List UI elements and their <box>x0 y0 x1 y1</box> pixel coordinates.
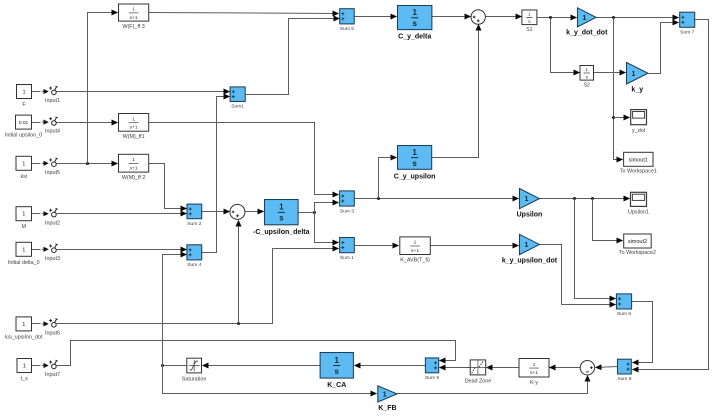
svg-text:1: 1 <box>383 392 387 399</box>
wire circle A to S1 <box>486 16 522 18</box>
svg-text:Sum 8: Sum 8 <box>617 376 631 382</box>
junction Upsilon tap 2 <box>591 197 594 200</box>
svg-text:M: M <box>22 224 27 230</box>
svg-text:1: 1 <box>412 8 417 17</box>
svg-text:ksi_upsilon_dot: ksi_upsilon_dot <box>5 334 43 340</box>
svg-text:simout2: simout2 <box>628 239 647 245</box>
svg-text:1: 1 <box>22 212 25 218</box>
transfer function W(M)_ff1 <box>119 114 149 141</box>
integrator C_y_upsilon <box>394 146 436 181</box>
svg-text:1: 1 <box>528 12 531 17</box>
wire circle C to K-y <box>550 367 581 369</box>
svg-text:s: s <box>279 214 284 223</box>
svg-text:W(M)_ff 2: W(M)_ff 2 <box>122 175 146 181</box>
constant F <box>17 85 32 109</box>
wire Sum 8 to circle C <box>596 367 618 368</box>
wire W(F)_ff 3 to Sum 5 <box>149 13 339 14</box>
junction k_y_dot_dot output <box>612 16 615 19</box>
svg-text:C_y_delta: C_y_delta <box>398 34 431 41</box>
wire branch to Sum 1 upper <box>315 213 339 243</box>
input port Input2 <box>42 208 60 226</box>
svg-text:1: 1 <box>632 71 636 78</box>
svg-text:Sum 9: Sum 9 <box>425 375 439 381</box>
svg-text:To Workspace1: To Workspace1 <box>620 169 657 175</box>
junction Upsilon tap 1 <box>573 197 576 200</box>
input port Input3 <box>42 244 60 262</box>
wire S1 to k_y_dot_dot <box>537 17 577 19</box>
junction Sum 3 output <box>377 197 380 200</box>
junction Input5 branch <box>86 162 89 165</box>
junction S1 output <box>549 16 552 19</box>
gain Upsilon <box>517 189 543 219</box>
to workspace simout1 <box>620 152 657 174</box>
gain k_y_dot_dot <box>566 8 608 37</box>
svg-text:1: 1 <box>22 90 25 96</box>
svg-text:1: 1 <box>22 161 25 167</box>
svg-text:Sum 1: Sum 1 <box>340 255 354 261</box>
wire Input3 to Sum 4 <box>57 249 187 251</box>
wire circle B to -C_upsilon_delta <box>245 211 264 213</box>
svg-text:s: s <box>412 19 417 28</box>
sum Sum 5 <box>340 9 355 32</box>
svg-text:Sum 5: Sum 5 <box>340 26 354 32</box>
svg-text:Dead Zone: Dead Zone <box>465 379 492 385</box>
svg-text:1: 1 <box>22 247 25 253</box>
dead zone block <box>465 360 492 385</box>
wire Dead Zone to Sum 9 <box>440 367 471 369</box>
svg-text:Upsilon1: Upsilon1 <box>628 210 649 216</box>
svg-text:1: 1 <box>412 148 417 157</box>
wire Sum 4 to Sum1 lower <box>202 97 230 253</box>
svg-text:1: 1 <box>533 362 536 368</box>
wire branch to Sum 3 lower <box>315 203 339 213</box>
sum Sum 2 <box>187 204 202 227</box>
input port Input4 <box>42 117 60 135</box>
wire K-y to Dead Zone <box>487 367 519 369</box>
sum Sum 3 <box>340 191 355 214</box>
junction -C output <box>313 211 316 214</box>
svg-text:simout1: simout1 <box>629 157 648 163</box>
svg-text:s: s <box>335 367 340 376</box>
constant Initial delta_0 <box>8 242 40 265</box>
svg-text:S2: S2 <box>584 83 590 89</box>
sum Sum 9 <box>425 358 439 381</box>
svg-text:s+1: s+1 <box>130 125 138 131</box>
wire W(M)_ff 2 to Sum 2 <box>149 164 187 209</box>
wire Sum 9 to K_CA <box>355 365 426 367</box>
integrator K_CA <box>320 353 353 390</box>
wire Sum 3 to Upsilon <box>355 198 519 200</box>
wire branch to simout2 <box>593 199 623 241</box>
svg-text:Sum 3: Sum 3 <box>340 208 354 214</box>
svg-text:Input4: Input4 <box>45 129 60 135</box>
svg-text:s+1: s+1 <box>130 165 138 171</box>
wire C_y_upsilon to circle A bottom <box>432 25 479 158</box>
svg-text:y_dot: y_dot <box>632 128 646 134</box>
svg-text:W(F)_ff 3: W(F)_ff 3 <box>122 24 144 30</box>
input port Input5 <box>42 158 60 176</box>
svg-text:Input7: Input7 <box>45 372 60 378</box>
wire ksi to Input5 <box>32 163 41 165</box>
svg-text:K_CA: K_CA <box>327 382 346 389</box>
wire branch down to K_FB <box>163 366 377 394</box>
svg-text:Upsilon: Upsilon <box>517 211 543 218</box>
wire Sum 7 to Sum 8 <box>633 20 709 370</box>
scope y_dot <box>631 110 647 134</box>
wire Input7 up over to Sum 9 <box>57 341 456 366</box>
junction y_dot tap <box>612 116 615 119</box>
sum Sum1 <box>230 87 245 110</box>
wire t_s to Input7 <box>32 365 41 367</box>
svg-text:Saturation: Saturation <box>182 376 207 382</box>
wire Input4 to W(M)_ff1 <box>57 122 118 124</box>
svg-text:Input2: Input2 <box>45 220 60 226</box>
svg-text:1: 1 <box>132 157 135 163</box>
sum Sum 7 <box>680 12 695 35</box>
wire Input5 branch to W(F)_ff 3 <box>88 13 118 164</box>
wire Sum 6 to Sum 8 <box>632 302 653 363</box>
wire Initial delta_0 to Input3 <box>32 249 41 251</box>
sum Sum 4 <box>187 245 202 268</box>
gain k_y <box>627 63 649 94</box>
wire W(M)_ff1 to Sum 3 <box>149 123 339 195</box>
wire Sum 2 to circle B <box>202 211 230 213</box>
sum junction circle B <box>230 204 245 219</box>
svg-text:1: 1 <box>585 67 588 72</box>
wire branch to C_y_upsilon <box>379 158 397 199</box>
wire K_AVB to k_y_upsilon_dot <box>431 245 519 247</box>
svg-text:W(M)_ff1: W(M)_ff1 <box>123 134 145 140</box>
constant t_s <box>17 359 32 383</box>
wire -C_upsilon_delta output <box>299 212 315 214</box>
svg-text:Input3: Input3 <box>45 256 60 262</box>
svg-text:1: 1 <box>525 242 529 249</box>
svg-text:Input1: Input1 <box>45 98 60 104</box>
input port Input7 <box>42 360 60 378</box>
svg-text:k_y_dot_dot: k_y_dot_dot <box>566 29 608 36</box>
svg-text:Initial delta_0: Initial delta_0 <box>8 260 40 266</box>
integrator -C_upsilon_delta <box>253 200 310 236</box>
svg-text:Sum 4: Sum 4 <box>187 262 201 268</box>
integrator S1 <box>522 10 537 33</box>
svg-text:ksi: ksi <box>20 174 27 180</box>
wire k_y_dot_dot to Sum 7 <box>597 17 679 19</box>
sum Sum 8 <box>617 359 631 382</box>
wire Sum 5 to C_y_delta <box>355 16 397 18</box>
transfer function K-y <box>519 359 549 386</box>
wire branch to y_dot scope <box>614 117 630 119</box>
scope Upsilon1 <box>628 192 649 215</box>
wire Sum 1 to K_AVB <box>355 245 399 247</box>
svg-text:S1: S1 <box>526 27 532 33</box>
svg-text:s+1: s+1 <box>130 15 138 21</box>
svg-text:Sum 6: Sum 6 <box>617 311 631 317</box>
input port Input1 <box>42 86 60 104</box>
wire branch to Sum 6 upper <box>575 199 616 299</box>
wire S1 branch to S2 <box>551 18 580 73</box>
svg-text:1: 1 <box>335 356 340 365</box>
junction Saturation output <box>161 364 164 367</box>
transfer function W(M)_ff 2 <box>119 154 149 181</box>
wire S2 to k_y <box>594 72 626 74</box>
svg-text:t_s: t_s <box>21 376 28 382</box>
wire Sum1 to Sum 5 lower <box>246 19 340 95</box>
to workspace simout2 <box>619 234 656 256</box>
svg-text:1: 1 <box>414 240 417 246</box>
wire Input5 to W(M)_ff 2 <box>57 163 118 165</box>
wire ksi_upsilon_dot const to Input6 <box>32 323 41 325</box>
svg-text:Input6: Input6 <box>45 331 60 337</box>
gain k_y_upsilon_dot <box>502 234 558 264</box>
wire M to Input2 <box>32 213 41 215</box>
integrator C_y_delta <box>398 6 432 41</box>
wire k_y_upsilon_dot to Sum 6 <box>540 245 616 305</box>
wire Input2 to Sum 2 <box>57 213 187 215</box>
integrator S2 <box>580 66 594 89</box>
wire branch up to Sum 4 <box>163 255 187 366</box>
constant Initial upsilon_0 <box>5 115 42 139</box>
svg-text:K_AVB(T_fi): K_AVB(T_fi) <box>400 257 430 263</box>
svg-text:Sum 7: Sum 7 <box>680 30 694 36</box>
svg-text:s+1: s+1 <box>530 370 538 376</box>
wire K_FB to circle C bottom <box>397 376 588 394</box>
svg-text:-C_upsilon_delta: -C_upsilon_delta <box>253 229 310 236</box>
sum Sum 6 <box>616 294 631 317</box>
svg-text:Sum1: Sum1 <box>231 104 244 110</box>
svg-text:1: 1 <box>132 116 135 122</box>
constant M <box>16 207 32 231</box>
svg-text:To Workspace2: To Workspace2 <box>619 250 656 256</box>
wire K_CA to Saturation <box>203 365 321 367</box>
sum junction circle A <box>471 10 485 24</box>
svg-text:s+1: s+1 <box>411 248 419 254</box>
svg-text:C_y_upsilon: C_y_upsilon <box>394 173 436 180</box>
input port Input6 <box>42 319 60 337</box>
constant ksi_upsilon_dot <box>5 317 43 341</box>
svg-text:1: 1 <box>23 364 26 370</box>
svg-text:Initial upsilon_0: Initial upsilon_0 <box>5 133 42 139</box>
svg-text:Sum 2: Sum 2 <box>187 221 201 227</box>
wire Input1 to Sum1 <box>57 91 230 93</box>
wire Saturation output <box>163 365 187 367</box>
wire branch to simout1 <box>614 18 623 160</box>
svg-text:k_y: k_y <box>631 87 643 94</box>
transfer function K_AVB(T_fi) <box>400 237 431 263</box>
sum Sum 1 <box>340 238 355 261</box>
transfer function W(F)_ff 3 <box>119 4 149 30</box>
wire 0.01 to Input4 <box>32 122 41 124</box>
svg-text:K_FB: K_FB <box>378 405 396 412</box>
saturation block <box>182 358 207 382</box>
wire C_y_delta to circle A <box>432 16 471 18</box>
sum junction circle C <box>580 361 594 375</box>
svg-text:K-y: K-y <box>530 380 538 386</box>
junction Input6 branch <box>237 322 240 325</box>
wire Upsilon to Upsilon1 scope <box>540 198 630 200</box>
svg-text:Input5: Input5 <box>45 170 60 176</box>
wire branch up to circle B bottom <box>238 221 240 324</box>
svg-text:0.01: 0.01 <box>19 120 29 126</box>
wire Input6 over to Sum 1 lower <box>57 249 339 324</box>
svg-text:1: 1 <box>279 203 284 212</box>
gain K_FB <box>378 386 397 412</box>
svg-text:1: 1 <box>525 196 529 203</box>
svg-text:1: 1 <box>132 7 135 13</box>
svg-text:1: 1 <box>583 15 587 22</box>
wire F to Input1 <box>32 91 41 93</box>
svg-text:s: s <box>412 159 417 168</box>
wire k_y to Sum 7 lower <box>649 23 679 74</box>
svg-text:1: 1 <box>22 322 25 328</box>
constant ksi <box>16 156 32 180</box>
svg-text:k_y_upsilon_dot: k_y_upsilon_dot <box>502 258 558 265</box>
